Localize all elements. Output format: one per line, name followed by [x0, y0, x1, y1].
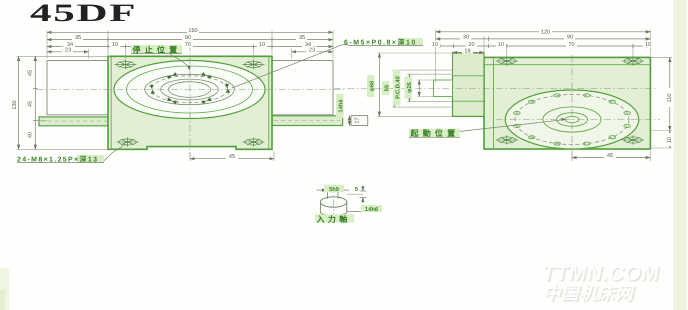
- body inner line top: [484, 64, 650, 66]
- left nested extension lines: [377, 52, 452, 54]
- watermark 中国机床网: [543, 280, 633, 305]
- dim 10 20 10 70 10: [436, 45, 651, 47]
- dim 23 left: [47, 51, 89, 53]
- right foot plate: [272, 116, 343, 126]
- svg-text:23: 23: [309, 47, 315, 53]
- leader stop-position: [170, 54, 190, 69]
- left foot plate: [39, 117, 108, 126]
- svg-text:14h6: 14h6: [337, 99, 344, 113]
- dim 45 bottom: [571, 152, 573, 161]
- flange middle ellipse: [543, 107, 601, 132]
- label 24-M8: [17, 155, 104, 164]
- leader start-position: [459, 120, 563, 132]
- bottom-left scan tint: [0, 268, 9, 310]
- extension lines top: [46, 31, 48, 59]
- dim 5h9 keyway: [317, 189, 327, 191]
- corner hole bottom-right: [622, 136, 644, 145]
- keyway depth leader: [347, 193, 363, 195]
- svg-text:120: 120: [541, 30, 550, 36]
- svg-text:110: 110: [667, 94, 673, 103]
- bolt mark lower-right: [200, 97, 213, 105]
- corner hole top-left: [496, 57, 518, 66]
- right tab plate: [272, 61, 333, 115]
- dim 10 vertical: [669, 131, 671, 149]
- svg-text:130: 130: [12, 100, 18, 109]
- bolt circle dashed: [152, 76, 228, 103]
- watermark TTMN.COM: [542, 262, 659, 286]
- dim 45 bottom: [189, 152, 191, 161]
- svg-text:90: 90: [185, 35, 191, 41]
- corner hole bottom-right: [243, 138, 265, 147]
- dim row 34 10 70 10 34: [47, 46, 333, 48]
- boss step line top: [453, 75, 485, 77]
- svg-text:P.C.D.40: P.C.D.40: [394, 76, 401, 99]
- svg-text:70: 70: [568, 42, 574, 48]
- label start position: [409, 129, 460, 139]
- svg-text:35: 35: [75, 35, 81, 41]
- dim 160: [47, 31, 333, 33]
- dim phi26: [418, 80, 420, 97]
- dim 30 90: [436, 38, 651, 40]
- input boss: [453, 53, 485, 116]
- flange horizontal centerline: [496, 119, 660, 121]
- svg-text:35: 35: [299, 35, 305, 41]
- svg-text:10: 10: [645, 42, 651, 48]
- label stop position: [131, 45, 182, 55]
- bolt mark right: [224, 82, 230, 95]
- flange outer ellipse: [114, 61, 265, 119]
- svg-text:45: 45: [28, 70, 34, 76]
- dim 130 vertical: [18, 56, 20, 149]
- svg-text:23: 23: [65, 47, 71, 53]
- corner hole top-left: [115, 60, 137, 69]
- svg-text:40: 40: [28, 132, 34, 138]
- dim 110 vertical: [669, 57, 671, 130]
- right edge scan strip: [673, 0, 687, 310]
- svg-text:160: 160: [188, 28, 197, 34]
- svg-text:19: 19: [464, 49, 470, 55]
- flange second ellipse: [127, 66, 253, 113]
- green vertical labels: [336, 70, 413, 119]
- corner hole bottom-left: [496, 136, 518, 145]
- body inner line left: [493, 57, 495, 149]
- corner hole bottom-left: [117, 138, 139, 147]
- bolt mark upper-right: [200, 72, 213, 80]
- dim 120: [436, 31, 651, 33]
- svg-text:45: 45: [607, 153, 613, 159]
- shaft top ellipse: [320, 197, 346, 207]
- svg-text:φ66: φ66: [368, 80, 375, 91]
- svg-text:45: 45: [229, 154, 235, 160]
- keyway lines: [327, 191, 329, 199]
- flange center hub: [565, 116, 579, 122]
- dim 45/45/40 vertical: [34, 56, 36, 149]
- dim 5 depth: [362, 186, 364, 192]
- dim 14h6 foot: [348, 116, 350, 126]
- leader 14h6: [347, 211, 381, 213]
- svg-text:10: 10: [112, 42, 118, 48]
- dim 55: [393, 70, 395, 107]
- flange vertical centerline: [571, 55, 573, 160]
- vertical centerline: [189, 44, 191, 160]
- flange ellipse outer: [505, 90, 639, 149]
- corner hole top-right: [622, 57, 644, 66]
- flange holes: [514, 94, 631, 145]
- main body: [484, 57, 650, 149]
- svg-text:17: 17: [355, 117, 361, 123]
- right extension lines: [650, 56, 672, 58]
- svg-text:30: 30: [463, 35, 469, 41]
- shaft axis centerline: [334, 88, 656, 90]
- dim phi66: [378, 53, 380, 116]
- dim 19: [453, 52, 485, 54]
- body inner wall lines: [110, 56, 112, 149]
- svg-text:5h9: 5h9: [329, 186, 340, 193]
- extension lines top: [435, 36, 437, 82]
- flange inner ellipse: [557, 113, 588, 127]
- svg-text:10: 10: [498, 42, 504, 48]
- svg-text:10: 10: [259, 42, 265, 48]
- dim PCD40: [409, 74, 411, 101]
- svg-text:14h6: 14h6: [365, 206, 379, 213]
- right foot dashed line: [274, 120, 340, 122]
- bolt mark left: [149, 83, 155, 96]
- dim 23 right: [292, 51, 334, 53]
- svg-text:45: 45: [28, 101, 34, 107]
- svg-text:起動位置: 起動位置: [410, 129, 460, 138]
- left foot dashed line: [41, 120, 107, 122]
- foot section rect 17: [351, 116, 368, 126]
- left extension lines: [17, 55, 108, 57]
- dim row 35 90 35: [47, 39, 333, 41]
- shaft center vertical: [333, 186, 335, 214]
- svg-text:20: 20: [468, 42, 474, 48]
- left view dim labels: [12, 27, 317, 161]
- shaft step phi26: [434, 80, 453, 97]
- boss step line bottom: [453, 100, 485, 102]
- svg-text:55: 55: [384, 84, 390, 91]
- svg-text:停止位置: 停止位置: [133, 46, 182, 55]
- flange bolt circle dashed: [515, 95, 629, 145]
- bore ellipse: [161, 79, 219, 100]
- flange middle ring: [145, 74, 234, 104]
- label 6-M5: [344, 38, 423, 46]
- svg-text:10: 10: [667, 137, 673, 143]
- main body: [108, 56, 272, 149]
- svg-text:10: 10: [432, 42, 438, 48]
- svg-text:φ26: φ26: [406, 81, 413, 92]
- corner hole top-right: [243, 60, 265, 69]
- right view dim labels: [355, 28, 674, 159]
- left tab plate: [47, 61, 108, 115]
- svg-text:70: 70: [185, 42, 191, 48]
- bolt mark lower-left: [166, 97, 179, 105]
- horizontal centerline: [36, 89, 346, 91]
- inner ellipse: [169, 82, 211, 98]
- svg-text:90: 90: [567, 35, 573, 41]
- leader 6-M5 to bolt: [232, 45, 348, 88]
- title 45DF: [30, 0, 137, 28]
- svg-text:6-M5×P0.8×深10: 6-M5×P0.8×深10: [344, 38, 417, 46]
- shaft cylinder: [320, 202, 346, 215]
- bolt mark upper-left: [166, 72, 179, 80]
- svg-text:入力軸: 入力軸: [317, 215, 351, 224]
- leader 24-M8: [104, 144, 126, 161]
- bottom view labels: [315, 185, 382, 224]
